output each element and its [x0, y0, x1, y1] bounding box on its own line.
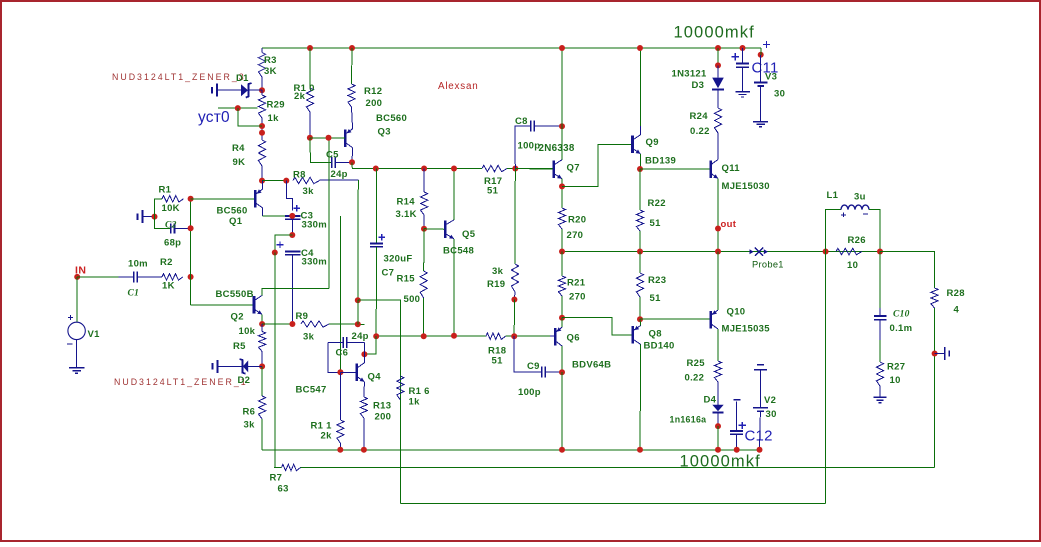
- svg-text:R22: R22: [648, 198, 666, 209]
- node C4 plus: [272, 250, 278, 256]
- node rail R10: [307, 45, 313, 51]
- svg-text:R8: R8: [293, 170, 306, 181]
- resistor R20: [558, 208, 565, 229]
- resistor R24: [717, 89, 719, 108]
- wire C3 to C4: [291, 219, 293, 235]
- terminal out right: [948, 350, 950, 356]
- svg-text:BC560: BC560: [217, 206, 248, 217]
- node tap: [235, 105, 241, 111]
- wire R11 bottom: [339, 443, 341, 450]
- wire R25 to D4: [717, 382, 719, 405]
- node D3 anode: [715, 62, 721, 68]
- svg-text:2N6338: 2N6338: [539, 143, 575, 154]
- node Q7 emitter: [559, 183, 565, 189]
- svg-text:Q11: Q11: [722, 163, 741, 174]
- node C6 24p junction: [373, 333, 379, 339]
- capacitor C9: [514, 336, 542, 372]
- svg-text:BDV64B: BDV64B: [572, 360, 611, 371]
- wire R8 left jog to C3: [286, 181, 292, 211]
- wire C7 column upper: [375, 169, 377, 244]
- wire C4 bracket: [275, 235, 293, 253]
- resistor R10: [306, 88, 313, 112]
- svg-text:Alexsan: Alexsan: [438, 81, 478, 92]
- transistor Q5 BC548 NPN: [444, 221, 447, 239]
- resistor R28: [931, 288, 938, 308]
- svg-text:1k: 1k: [409, 397, 421, 408]
- svg-text:320uF: 320uF: [384, 254, 413, 265]
- wire trimmer tap уст0: [218, 107, 258, 109]
- wire Q2 emitter down: [261, 314, 263, 324]
- wire Q8 emitter up: [639, 319, 642, 325]
- ground V1: [69, 367, 85, 369]
- wire tap bracket: [238, 108, 262, 126]
- svg-text:R4: R4: [232, 143, 245, 154]
- node Q9 emitter: [637, 166, 643, 172]
- svg-text:200: 200: [366, 98, 383, 109]
- wire R10 top: [309, 48, 311, 88]
- diode D1 zener: [211, 87, 213, 93]
- svg-text:D3: D3: [692, 80, 705, 91]
- node rail D3: [715, 45, 721, 51]
- resistor R3: [258, 53, 265, 78]
- svg-text:BC547: BC547: [296, 385, 327, 396]
- svg-text:4: 4: [954, 305, 960, 316]
- transistor Q10 MJE15035 PNP: [709, 311, 712, 329]
- resistor R22: [639, 169, 641, 210]
- svg-text:51: 51: [487, 186, 499, 197]
- wire R5 to D2: [261, 357, 263, 366]
- node Q4 collector: [361, 351, 367, 357]
- node out rail x562: [559, 249, 565, 255]
- node rail x718 bottom: [715, 447, 721, 453]
- node D2: [259, 363, 265, 369]
- wire Q1 collector row y216: [262, 208, 264, 216]
- node R13 rail: [361, 447, 367, 453]
- capacitor C12 polarized: [734, 399, 741, 401]
- svg-text:V2: V2: [764, 395, 776, 406]
- wire Q3 collector down: [351, 148, 354, 162]
- wire Q9 collector: [639, 48, 641, 126]
- svg-text:R1 6: R1 6: [409, 386, 430, 397]
- node R15 bottom: [421, 333, 427, 339]
- svg-text:3k: 3k: [244, 420, 256, 431]
- svg-text:100p: 100p: [518, 387, 541, 398]
- svg-text:BD139: BD139: [645, 156, 676, 167]
- wire R7 feedback row y467: [274, 467, 282, 469]
- ground C11: [735, 91, 750, 93]
- svg-text:Q9: Q9: [646, 137, 659, 148]
- svg-text:Q1: Q1: [229, 216, 243, 227]
- resistor R13: [363, 382, 366, 397]
- wire Q11 base: [640, 168, 711, 170]
- svg-text:D1: D1: [236, 73, 249, 84]
- wire C4 bracket feedback column x274: [274, 253, 276, 468]
- wire out rail y251: [562, 251, 935, 253]
- svg-text:270: 270: [567, 230, 584, 241]
- wire Q9 base path: [562, 144, 633, 186]
- svg-text:D4: D4: [704, 395, 717, 406]
- wire Q5 base: [424, 228, 445, 231]
- wire y300 to R16 column: [358, 300, 401, 503]
- svg-text:30: 30: [766, 409, 777, 420]
- svg-text:R15: R15: [397, 274, 416, 285]
- resistor R5: [261, 324, 263, 332]
- wire Q9 emitter: [639, 154, 641, 169]
- node Q1 emitter: [259, 178, 265, 184]
- wire R15 bottom: [423, 298, 425, 336]
- resistor R1: [162, 196, 184, 202]
- svg-text:R21: R21: [567, 278, 586, 289]
- wire Q11 emitter to out: [717, 179, 719, 252]
- node Q5 emitter rail: [451, 333, 457, 339]
- svg-text:3K: 3K: [264, 66, 277, 77]
- svg-text:MJE15035: MJE15035: [722, 324, 771, 335]
- svg-text:10: 10: [847, 260, 858, 271]
- capacitor C1: [119, 276, 134, 278]
- wire Q4 base: [340, 371, 356, 373]
- svg-text:R12: R12: [364, 86, 382, 97]
- svg-text:NUD3124LT1_ZENER_3: NUD3124LT1_ZENER_3: [112, 72, 246, 82]
- node terminal R1C2: [152, 214, 158, 220]
- node R18 right: [511, 333, 517, 339]
- inductor L1: [826, 210, 841, 252]
- wire R24 to Q11 collector: [717, 133, 719, 160]
- wire Q6 emitter up: [561, 318, 563, 327]
- resistor R29: [261, 90, 263, 95]
- wire D3 top: [717, 48, 719, 65]
- wire V1 vertical: [76, 277, 78, 322]
- node L1 R26 left: [823, 249, 829, 255]
- svg-text:Q4: Q4: [368, 372, 382, 383]
- resistor R11: [339, 372, 341, 420]
- svg-text:C8: C8: [515, 116, 528, 127]
- resistor R8: [293, 177, 320, 183]
- node R10 bottom: [307, 135, 313, 141]
- wire Q3 base row: [310, 137, 345, 139]
- wire out to R28: [880, 252, 935, 289]
- svg-text:2k: 2k: [294, 91, 306, 102]
- node R1 right: [188, 196, 194, 202]
- battery V3: [763, 44, 770, 46]
- svg-text:R24: R24: [690, 111, 709, 122]
- node out: [715, 226, 721, 232]
- svg-text:C1: C1: [128, 289, 140, 299]
- node C3 C4: [289, 232, 295, 238]
- svg-text:C6: C6: [336, 348, 349, 359]
- probe Probe1: [750, 249, 754, 254]
- wire Q6 collector down: [561, 346, 563, 372]
- svg-text:V1: V1: [88, 329, 101, 340]
- wire Q8 collector down: [639, 344, 642, 449]
- transistor Q3 BC560 PNP: [344, 129, 347, 147]
- wire C4 down to R9 row: [291, 255, 293, 324]
- wire emitter row to R8: [262, 180, 286, 182]
- node rail C7: [373, 166, 379, 172]
- svg-text:R5: R5: [233, 341, 246, 352]
- node rail V3: [758, 52, 764, 58]
- node R2 right: [188, 274, 194, 280]
- wire bottom rail y450: [262, 449, 759, 451]
- svg-text:C7: C7: [382, 268, 395, 279]
- node rail C12: [734, 447, 740, 453]
- svg-text:R23: R23: [648, 275, 666, 286]
- svg-text:500: 500: [404, 294, 421, 305]
- wire x825 down: [825, 252, 827, 504]
- wire Q10 base: [640, 318, 711, 320]
- svg-text:R9: R9: [296, 311, 309, 322]
- node C2 right: [188, 225, 194, 231]
- wire x274 to R7: [274, 467, 282, 469]
- wire C6 right to collector node: [363, 343, 365, 355]
- svg-text:Q7: Q7: [567, 163, 580, 174]
- node R11 rail: [337, 447, 343, 453]
- resistor R25: [714, 361, 721, 382]
- svg-text:V3: V3: [765, 72, 777, 83]
- wire R9 right: [329, 323, 365, 325]
- node rail V2: [757, 447, 763, 453]
- node Q2 emitter R5: [259, 321, 265, 327]
- wire R13 bottom: [363, 418, 365, 450]
- svg-text:3k: 3k: [492, 266, 504, 277]
- node Q7 base: [512, 166, 518, 172]
- transistor Q6 BDV64B PNP: [550, 335, 555, 337]
- svg-text:R7: R7: [270, 473, 283, 484]
- svg-text:3u: 3u: [854, 192, 866, 203]
- svg-text:Q3: Q3: [378, 127, 391, 138]
- node rail x640 bottom: [637, 447, 643, 453]
- resistor R26: [836, 248, 862, 254]
- svg-text:1k: 1k: [268, 113, 280, 124]
- svg-text:51: 51: [650, 218, 662, 229]
- node D1: [259, 87, 265, 93]
- resistor R23: [639, 252, 641, 274]
- svg-text:68p: 68p: [164, 238, 181, 249]
- svg-text:100p: 100p: [518, 141, 541, 152]
- svg-text:1n1616a: 1n1616a: [670, 415, 707, 425]
- wire Q6 collector to rail: [561, 372, 563, 450]
- diode D3 1N3121: [717, 65, 719, 77]
- resistor R17: [482, 165, 507, 171]
- svg-text:0.22: 0.22: [690, 126, 710, 137]
- resistor R19: [514, 169, 516, 265]
- wire Q6 emitter to Q8 base: [562, 318, 633, 335]
- svg-text:51: 51: [492, 356, 504, 367]
- resistor R9: [301, 321, 329, 327]
- wire C10 to R27: [879, 340, 881, 362]
- node Q4 base: [337, 369, 343, 375]
- wire R3 to D1 node: [261, 77, 263, 90]
- wire C6 left bracket to Q4 base: [328, 343, 340, 373]
- svg-text:10: 10: [890, 375, 901, 386]
- capacitor C10: [879, 252, 881, 309]
- svg-text:BC550B: BC550B: [216, 289, 254, 300]
- wire R10 bottom: [309, 112, 311, 138]
- wire feedback x358 column: [357, 180, 360, 300]
- wire R23 bottom: [639, 297, 641, 319]
- svg-text:уст0: уст0: [198, 109, 230, 126]
- svg-text:R29: R29: [267, 100, 285, 111]
- svg-text:R28: R28: [947, 288, 965, 299]
- svg-text:R6: R6: [243, 407, 256, 418]
- svg-text:Q8: Q8: [649, 329, 662, 340]
- svg-text:24p: 24p: [331, 169, 348, 180]
- svg-text:R2: R2: [160, 257, 173, 268]
- resistor R27: [876, 362, 883, 386]
- wire Q1col drive column x340: [339, 216, 341, 372]
- svg-text:10m: 10m: [128, 259, 148, 270]
- node out rail x718: [715, 249, 721, 255]
- svg-text:Q6: Q6: [567, 333, 580, 344]
- resistor R12: [348, 84, 355, 107]
- svg-text:R1: R1: [159, 185, 172, 196]
- svg-text:24p: 24p: [352, 331, 369, 342]
- svg-text:L1: L1: [827, 190, 839, 201]
- svg-text:C9: C9: [527, 361, 540, 372]
- svg-text:R14: R14: [397, 197, 416, 208]
- wire R4 to Q1 emitter: [261, 166, 263, 181]
- svg-text:3k: 3k: [303, 332, 315, 343]
- node R9 right: [355, 321, 361, 327]
- node out rail x640: [637, 249, 643, 255]
- svg-text:C5: C5: [326, 150, 339, 161]
- svg-text:R26: R26: [848, 235, 866, 246]
- svg-text:C2: C2: [165, 221, 177, 231]
- wire R19 to R18 node: [513, 300, 515, 337]
- transistor Q9 BD139 NPN: [631, 136, 634, 154]
- svg-text:200: 200: [375, 412, 392, 423]
- node terminal right: [932, 351, 938, 357]
- resistor R4: [258, 140, 265, 166]
- wire IN to C1: [77, 276, 119, 278]
- resistor R18: [486, 333, 506, 339]
- node C8 right rail x562: [559, 123, 565, 129]
- svg-text:out: out: [721, 219, 737, 230]
- node D4 cathode: [715, 423, 721, 429]
- capacitor C7 electrolytic: [378, 236, 385, 238]
- wire Q4 collector lead: [363, 354, 365, 363]
- node rail x640: [637, 45, 643, 51]
- node C3 top: [289, 213, 295, 219]
- wire Q10 collector down: [717, 329, 719, 361]
- svg-text:1N3121: 1N3121: [672, 69, 707, 80]
- wire Q2 collector to feedback node: [262, 289, 329, 296]
- node R26 right: [877, 249, 883, 255]
- wire top supply rail: [262, 47, 761, 49]
- ground R27: [874, 396, 887, 398]
- node rail R14: [421, 166, 427, 172]
- transistor Q8 BD140 PNP: [631, 326, 634, 344]
- wire D4 to rail: [717, 412, 719, 426]
- svg-text:0.22: 0.22: [685, 373, 705, 384]
- wire lower rail y336: [376, 335, 486, 337]
- svg-text:R19: R19: [487, 279, 505, 290]
- wire R27 to ground: [879, 386, 881, 397]
- wire feedback vertical x328: [328, 138, 330, 289]
- wire Q10 emitter up: [717, 252, 719, 311]
- resistor R2: [162, 274, 183, 280]
- capacitor C6: [342, 337, 344, 348]
- node rail x562 bottom: [559, 447, 565, 453]
- node Q5 base: [421, 226, 427, 232]
- svg-text:D2: D2: [238, 375, 251, 386]
- svg-text:330m: 330m: [302, 220, 328, 231]
- svg-text:330m: 330m: [302, 257, 328, 268]
- node R19 bottom: [513, 292, 516, 300]
- resistor R6: [261, 366, 263, 396]
- capacitor C5: [310, 138, 332, 163]
- terminal input bias: [137, 213, 139, 219]
- svg-text:270: 270: [569, 292, 586, 303]
- wire Q7 emitter down: [561, 179, 563, 208]
- svg-text:BD140: BD140: [644, 341, 675, 352]
- capacitor C8: [515, 126, 531, 168]
- svg-text:10k: 10k: [239, 326, 256, 337]
- wire input node column x190: [190, 199, 192, 277]
- node R8 left: [283, 178, 289, 184]
- svg-text:R3: R3: [264, 55, 277, 66]
- capacitor C2: [170, 223, 172, 233]
- svg-text:Q10: Q10: [727, 307, 746, 318]
- wire bottom return y503: [400, 503, 825, 505]
- node rail C11: [740, 45, 746, 51]
- svg-text:NUD3124LT1_ZENER_1: NUD3124LT1_ZENER_1: [114, 377, 248, 387]
- node Q3 collector: [349, 159, 355, 165]
- svg-text:10000mkf: 10000mkf: [680, 453, 761, 471]
- wire R12 to Q3 emitter: [352, 107, 353, 130]
- svg-text:R27: R27: [887, 362, 905, 373]
- wire R28 down: [934, 308, 936, 468]
- wire R22 bottom: [639, 231, 641, 252]
- wire 24p down jog to Q4 collector: [364, 336, 376, 354]
- svg-text:3.1K: 3.1K: [396, 209, 417, 220]
- wire x562 top: [561, 48, 563, 160]
- svg-text:Q2: Q2: [231, 312, 244, 323]
- node R9 left: [289, 321, 295, 327]
- resistor R21: [561, 252, 563, 277]
- resistor R14: [423, 169, 425, 193]
- ground V3: [753, 121, 768, 123]
- node Q3 base x328: [326, 135, 332, 141]
- wire Q5 collector: [453, 169, 455, 220]
- node rail R12: [349, 45, 355, 51]
- svg-text:10K: 10K: [162, 203, 180, 214]
- node x358 y300: [355, 297, 361, 303]
- wire Q3 collector to rail: [352, 162, 376, 168]
- svg-text:BC548: BC548: [443, 246, 474, 257]
- capacitor C11 polarized: [742, 48, 744, 63]
- transistor Q7 2N6338 NPN: [515, 168, 553, 171]
- transistor Q4 BC547 NPN: [355, 364, 358, 382]
- svg-text:IN: IN: [75, 265, 87, 277]
- node R21 Q6 emitter: [559, 315, 565, 321]
- node rail Q5 collector: [451, 166, 457, 172]
- wire R1 to Q1 base: [191, 198, 254, 200]
- wire R8 right run: [320, 179, 359, 181]
- wire R6 to bottom rail: [261, 419, 263, 450]
- transistor Q2 BC550B NPN: [253, 296, 256, 314]
- resistor R16: [397, 376, 404, 400]
- wire rail to R3: [261, 48, 263, 53]
- resistor R15: [423, 229, 425, 271]
- wire C7 column lower: [375, 247, 377, 336]
- wire R21 bottom: [561, 296, 563, 318]
- wire Q5 emitter: [453, 239, 455, 336]
- wire R14 to node: [423, 215, 425, 229]
- svg-text:R25: R25: [687, 358, 706, 369]
- battery V2: [757, 364, 764, 366]
- svg-text:MJE15030: MJE15030: [722, 181, 770, 192]
- wire R12 top: [351, 48, 354, 84]
